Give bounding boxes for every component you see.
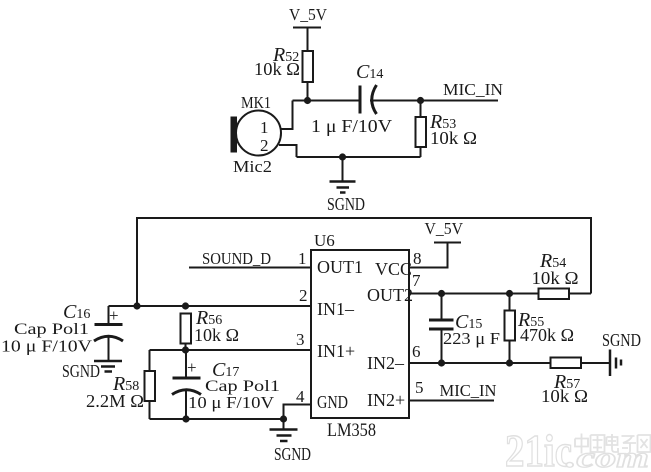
- junction dot (R55 top): [506, 290, 513, 297]
- svg-text:MIC_IN: MIC_IN: [440, 381, 497, 400]
- svg-text:2: 2: [299, 286, 308, 305]
- resistor R54: [539, 289, 592, 300]
- op-amp U6 body: [311, 250, 409, 418]
- junction dot (C17 bottom): [182, 415, 189, 422]
- junction dot (feedback/pin2): [133, 302, 140, 309]
- junction dot (R56 top): [182, 302, 189, 309]
- svg-text:10k Ω: 10k Ω: [541, 386, 588, 406]
- watermark 21ic logo: [505, 425, 649, 472]
- ground SGND (C16): [94, 361, 122, 372]
- ground SGND (pin4): [270, 430, 298, 442]
- svg-text:SOUND_D: SOUND_D: [202, 249, 271, 268]
- power V_5V (top): [289, 5, 328, 28]
- wire to SGND (top): [342, 157, 344, 181]
- wire MK1 pin1 to node: [280, 101, 293, 130]
- junction dot (R55 bottom): [506, 359, 513, 366]
- svg-text:VCC: VCC: [375, 259, 412, 279]
- wire R53 bottom lead: [420, 147, 422, 157]
- svg-text:SGND: SGND: [327, 194, 365, 214]
- wire MK1 pin2 down: [279, 145, 297, 157]
- svg-text:V_5V: V_5V: [425, 219, 464, 238]
- wire pin3: [150, 349, 312, 351]
- wire node to C14: [293, 100, 360, 102]
- resistor R52: [303, 51, 314, 82]
- resistor R57: [551, 358, 611, 369]
- wire R53 top lead: [420, 101, 422, 118]
- wire to SGND (pin4): [283, 419, 285, 429]
- svg-text:1 μ F/10V: 1 μ F/10V: [311, 116, 392, 136]
- wire pin5 (MIC_IN): [409, 400, 494, 402]
- power V_5V (U6): [425, 219, 464, 243]
- junction dot (R56 bottom / C17 top): [182, 346, 189, 353]
- svg-text:2: 2: [260, 136, 269, 155]
- svg-text:IN1–: IN1–: [317, 299, 355, 319]
- wire pin6: [409, 362, 551, 364]
- svg-text:7: 7: [412, 271, 421, 290]
- svg-text:GND: GND: [317, 392, 348, 412]
- junction dot (R53/MIC_IN): [417, 97, 424, 104]
- svg-text:10k Ω: 10k Ω: [430, 128, 477, 148]
- svg-text:5: 5: [415, 378, 424, 397]
- svg-text:4: 4: [296, 387, 305, 406]
- microphone MK1: [231, 111, 282, 156]
- svg-text:2.2M Ω: 2.2M Ω: [86, 391, 144, 411]
- svg-text:MIC_IN: MIC_IN: [443, 80, 503, 99]
- wire bottom (R58/C17/pin4): [150, 418, 284, 420]
- svg-text:SGND: SGND: [62, 361, 100, 381]
- svg-text:1: 1: [260, 118, 269, 137]
- svg-text:Mic2: Mic2: [233, 157, 272, 176]
- svg-text:10k Ω: 10k Ω: [194, 325, 239, 345]
- wire R52 to node: [307, 82, 309, 100]
- watermark 中国电子网: [575, 434, 651, 455]
- svg-text:223 μ F: 223 μ F: [443, 329, 500, 348]
- wire C14 to MIC_IN: [370, 100, 498, 102]
- wire V_5V to pin8: [409, 243, 448, 268]
- svg-text:IN2–: IN2–: [367, 353, 405, 373]
- wire R58 top lead: [149, 350, 151, 371]
- svg-text:1: 1: [298, 249, 307, 268]
- svg-text:OUT1: OUT1: [317, 257, 363, 277]
- svg-text:IN1+: IN1+: [317, 341, 355, 361]
- wire pin4: [284, 405, 312, 420]
- junction dot (R52/mic/C14): [304, 97, 311, 104]
- svg-text:+: +: [109, 306, 119, 325]
- svg-text:U6: U6: [314, 231, 335, 250]
- junction dot (SGND drop): [339, 153, 346, 160]
- junction dot (pin4 ground): [280, 415, 287, 422]
- svg-text:V_5V: V_5V: [289, 5, 328, 24]
- svg-text:SGND: SGND: [274, 444, 311, 464]
- capacitor C16: [94, 306, 123, 360]
- svg-text:470k Ω: 470k Ω: [520, 325, 574, 345]
- svg-text:10 μ F/10V: 10 μ F/10V: [188, 393, 274, 412]
- junction dot (C15 top): [438, 290, 445, 297]
- ground SGND (right): [610, 350, 621, 377]
- svg-text:SGND: SGND: [602, 330, 641, 350]
- svg-text:IN2+: IN2+: [367, 390, 405, 410]
- resistor R55: [505, 294, 516, 364]
- svg-text:LM358: LM358: [327, 420, 376, 441]
- svg-text:10 μ F/10V: 10 μ F/10V: [1, 337, 92, 356]
- svg-text:10k Ω: 10k Ω: [532, 268, 579, 288]
- svg-text:Cap Pol1: Cap Pol1: [14, 321, 89, 338]
- wire bottom (mic to R53): [297, 156, 421, 158]
- resistor R53: [416, 117, 427, 147]
- ground SGND (top): [330, 182, 356, 193]
- resistor R56: [181, 314, 192, 351]
- svg-text:21ic: 21ic: [505, 425, 572, 472]
- wire feedback loop (pin2 to R54 right): [137, 218, 591, 306]
- wire R58 bottom lead: [149, 401, 151, 419]
- capacitor C14: [360, 85, 377, 114]
- resistor R58: [145, 371, 156, 401]
- svg-text:MK1: MK1: [241, 93, 271, 112]
- svg-text:10k Ω: 10k Ω: [254, 59, 300, 79]
- svg-text:+: +: [187, 358, 197, 377]
- wire pin7: [409, 293, 539, 295]
- wire V_5V to R52: [307, 28, 309, 52]
- wire pin1 (SOUND_D): [189, 267, 311, 269]
- wire pin2: [109, 305, 312, 307]
- capacitor C15: [429, 294, 454, 364]
- svg-text:8: 8: [413, 249, 422, 268]
- svg-text:OUT2: OUT2: [367, 285, 413, 305]
- capacitor C17: [172, 350, 201, 419]
- svg-text:3: 3: [296, 330, 305, 349]
- svg-text:6: 6: [412, 342, 421, 361]
- junction dot (C15 bottom): [438, 359, 445, 366]
